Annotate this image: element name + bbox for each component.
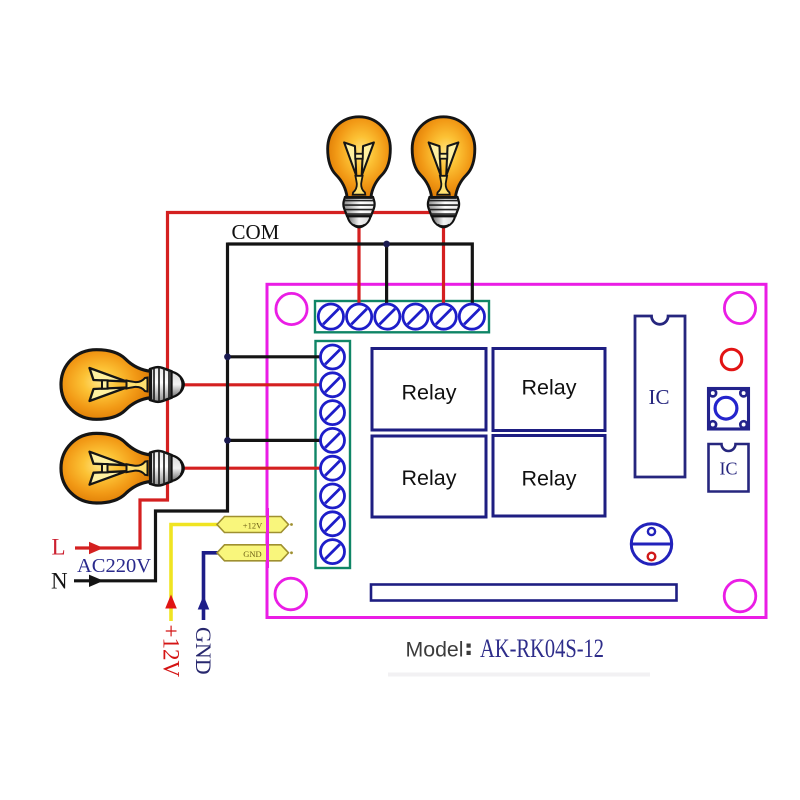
screw terminal left 5 <box>321 456 345 480</box>
svg-text:Relay: Relay <box>522 467 577 491</box>
lamp LP2 (top right bulb) <box>412 117 475 227</box>
relay K2 <box>493 349 605 431</box>
screw terminal top 5 <box>431 304 456 329</box>
mounting hole top-right <box>724 292 755 323</box>
screw terminal left 6 <box>321 484 345 508</box>
screw terminal left 2 <box>321 373 345 397</box>
wire lamp4 tip to left terminal 5 <box>182 467 326 470</box>
board left edge overlay over connectors <box>266 508 269 568</box>
test point (red ring) <box>721 349 742 370</box>
arrowhead GND (dark blue, up) <box>198 596 210 610</box>
junction dot left COM lower <box>224 437 231 444</box>
junction dot top COM <box>383 241 390 248</box>
arrowhead L (red) <box>89 542 104 554</box>
wire lamp1 tip to terminal 2 <box>357 222 360 310</box>
spade connector +12V <box>217 517 293 533</box>
mounting hole bottom-left <box>275 578 307 610</box>
svg-text:Relay: Relay <box>402 381 457 405</box>
spade connector GND <box>217 545 293 561</box>
terminal block TB1 (top, 6-pin) <box>315 301 489 332</box>
svg-text:GND: GND <box>243 549 261 559</box>
wire COM branch to left terminal 1 <box>228 355 327 358</box>
lamp LP1 (top left bulb) <box>328 117 391 227</box>
wire COM branch to left terminal 4 <box>228 439 327 442</box>
screw terminal left 1 <box>321 345 345 369</box>
buzzer/LED indicator BZ1 <box>631 524 671 564</box>
screw terminal top 3 <box>375 304 400 329</box>
svg-text:IC: IC <box>720 459 738 479</box>
screw terminal left 8 <box>321 540 345 564</box>
svg-text:GND: GND <box>191 627 216 675</box>
relay K1 <box>372 349 486 431</box>
screw terminal left 3 <box>321 401 345 425</box>
wire COM vertical + N return <box>74 243 228 581</box>
relay K3 <box>372 436 486 517</box>
svg-text:Relay: Relay <box>402 466 457 490</box>
svg-text:AC220V: AC220V <box>77 555 151 577</box>
screw terminal left 4 <box>321 428 345 452</box>
wire +12V yellow <box>171 525 219 622</box>
screw terminal top 2 <box>347 304 372 329</box>
IC U1 (large DIP) <box>635 316 685 477</box>
svg-text:IC: IC <box>649 385 670 409</box>
svg-text:N: N <box>51 569 68 594</box>
svg-text:+12V: +12V <box>159 625 184 678</box>
lamp LP3 (left upper bulb) <box>61 350 184 420</box>
mounting hole top-left <box>276 293 307 324</box>
svg-text:Relay: Relay <box>522 376 577 400</box>
wire L phase: L arrow up left side to top bulbs <box>75 213 434 549</box>
arrowhead +12V (red, up) <box>165 595 177 609</box>
wire GND dark blue <box>204 553 219 620</box>
svg-text:COM: COM <box>232 220 280 244</box>
wire lamp2 tip to terminal 5 <box>442 222 445 310</box>
svg-text:+12V: +12V <box>243 521 263 531</box>
push button S1 <box>709 389 749 430</box>
pin header bar J1 <box>371 585 677 601</box>
wire COM drop to terminal 3 <box>385 244 388 310</box>
junction dot left COM upper <box>224 353 231 360</box>
svg-text:AK-RK04S-12: AK-RK04S-12 <box>480 634 604 663</box>
wire lamp3 tip to left terminal 2 <box>182 383 326 386</box>
label model colon <box>467 644 471 656</box>
screw terminal left 7 <box>321 512 345 536</box>
screw terminal top 6 <box>459 304 484 329</box>
terminal block TB2 (left, 8-pin) <box>316 341 351 568</box>
svg-text:Model: Model <box>406 638 464 662</box>
arrowhead N (black) <box>89 575 104 587</box>
PCB board outline <box>267 284 766 617</box>
wire COM bus top <box>228 244 473 310</box>
svg-text:L: L <box>52 535 66 560</box>
lamp LP4 (left lower bulb) <box>61 433 184 503</box>
IC U2 (small) <box>709 444 749 492</box>
faint divider line <box>388 673 650 677</box>
relay K4 <box>493 436 605 517</box>
screw terminal top 4 <box>403 304 428 329</box>
screw terminal top 1 <box>318 304 343 329</box>
mounting hole bottom-right <box>724 580 756 612</box>
